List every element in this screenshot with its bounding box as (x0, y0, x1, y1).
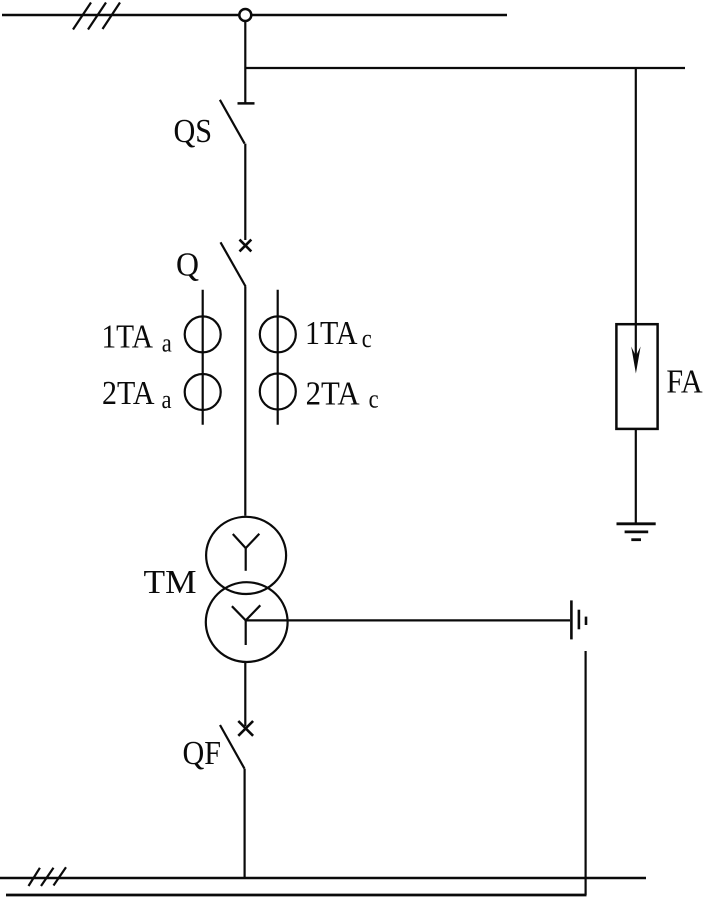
wire: QS to Q (244, 144, 246, 240)
wire: Q down through CT section to TM (244, 287, 246, 516)
wire: branch from riser to FA (245, 67, 685, 69)
node: tap point on busbar (239, 9, 251, 21)
busbar continuation hatches (bottom) (29, 867, 67, 886)
circuit breaker QF (220, 725, 245, 769)
label 1TAc (305, 315, 372, 353)
surge arrester FA (616, 324, 657, 429)
label 2TAa (102, 375, 172, 414)
wire: phase-c CT branch (277, 290, 279, 425)
current transformer 2TAa (185, 374, 221, 410)
wire: TM to QF (244, 662, 246, 726)
svg-text:1TA: 1TA (102, 319, 154, 356)
svg-text:FA: FA (666, 363, 703, 400)
wire: earthing down to ground bus (584, 651, 586, 895)
svg-text:QS: QS (174, 113, 213, 150)
svg-text:QF: QF (183, 735, 222, 772)
wire: QF to bottom busbar (244, 769, 246, 878)
ground (below FA) (617, 524, 656, 540)
busbar continuation hatches (top) (73, 3, 120, 30)
svg-text:2TA: 2TA (102, 375, 155, 412)
current transformer 2TAc (260, 374, 296, 410)
wire: phase-a CT branch (202, 290, 204, 425)
wire: TM secondary to neutral earthing (246, 619, 570, 621)
svg-text:c: c (362, 324, 372, 353)
wire: FA drop from branch (635, 68, 637, 366)
svg-text:a: a (162, 329, 172, 358)
current transformer 1TAa (185, 316, 221, 352)
disconnector QS (220, 100, 255, 144)
wire: node to QS fixed contact (244, 21, 246, 102)
transformer TM primary winding (206, 517, 286, 594)
earthing electrode (TM neutral) (571, 600, 586, 639)
top busbar W1 (2, 14, 507, 17)
svg-text:2TA: 2TA (306, 375, 360, 412)
transformer TM secondary winding (206, 582, 288, 662)
contact cross at Q (240, 240, 252, 252)
svg-text:TM: TM (144, 564, 197, 601)
wire: FA to ground (635, 429, 637, 523)
label 2TAc (306, 375, 379, 413)
switch Q (221, 242, 246, 286)
bottom busbar (0, 877, 646, 880)
current transformer 1TAc (260, 316, 296, 352)
ground bus (lower) (6, 894, 587, 897)
svg-text:Q: Q (176, 246, 199, 283)
svg-text:a: a (162, 385, 172, 414)
svg-text:1TA: 1TA (305, 315, 358, 352)
contact cross at QF (238, 721, 253, 736)
label 1TAa (102, 319, 173, 358)
svg-text:c: c (369, 385, 379, 414)
